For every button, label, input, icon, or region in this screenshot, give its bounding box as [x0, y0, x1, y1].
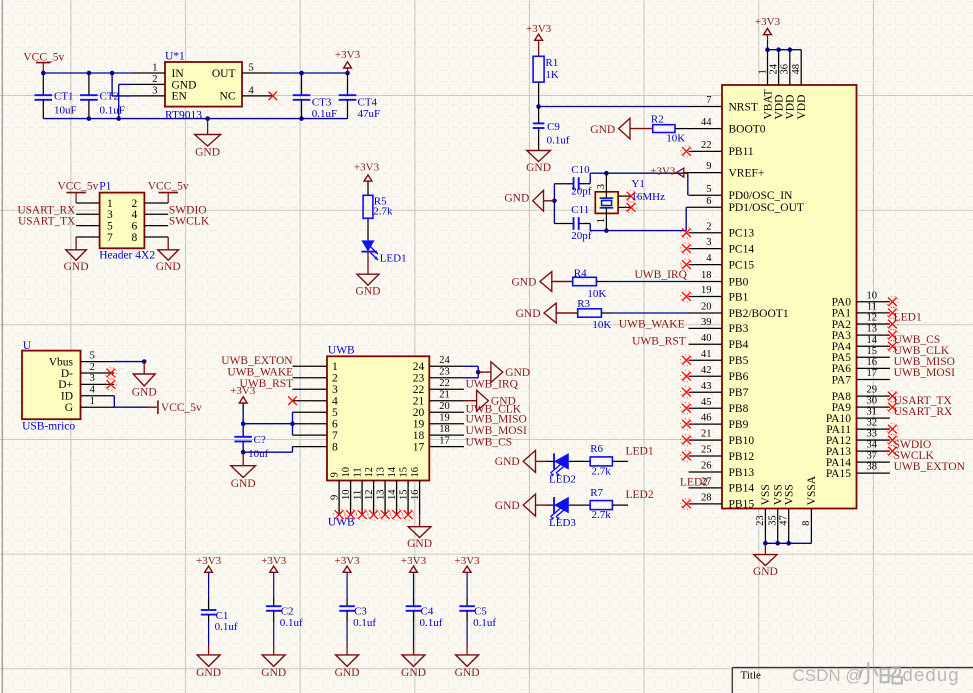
svg-text:43: 43: [701, 381, 712, 392]
svg-text:SWCLK: SWCLK: [169, 216, 210, 228]
svg-text:4: 4: [249, 85, 255, 96]
svg-text:CT4: CT4: [358, 97, 378, 109]
svg-text:22: 22: [439, 378, 450, 389]
svg-text:12: 12: [364, 490, 375, 501]
svg-text:LED1: LED1: [380, 253, 407, 265]
svg-text:45: 45: [701, 397, 712, 408]
svg-text:C9: C9: [547, 121, 560, 133]
svg-text:9: 9: [706, 161, 711, 172]
svg-text:R1: R1: [545, 57, 558, 69]
svg-text:8: 8: [132, 232, 138, 244]
svg-text:15: 15: [398, 467, 409, 478]
svg-text:12: 12: [364, 467, 375, 478]
svg-text:VCC_5v: VCC_5v: [57, 180, 98, 192]
svg-text:20pf: 20pf: [571, 186, 592, 198]
svg-text:4: 4: [332, 396, 338, 408]
svg-text:R3: R3: [577, 298, 590, 310]
svg-text:21: 21: [413, 396, 425, 408]
svg-text:UWB_EXTON: UWB_EXTON: [221, 355, 293, 367]
svg-text:1: 1: [332, 361, 338, 373]
svg-text:UWB_MOSI: UWB_MOSI: [466, 425, 528, 437]
svg-text:VDD: VDD: [785, 95, 797, 120]
svg-text:VSSA: VSSA: [806, 475, 818, 505]
svg-text:Y1: Y1: [631, 178, 644, 190]
svg-text:CSDN @: CSDN @: [793, 666, 863, 685]
svg-text:5: 5: [249, 63, 254, 74]
svg-text:LED2: LED2: [549, 473, 576, 485]
svg-text:17: 17: [413, 441, 425, 453]
svg-text:VDD: VDD: [796, 95, 808, 120]
svg-text:23: 23: [439, 367, 450, 378]
svg-text:GND: GND: [132, 387, 157, 399]
svg-text:0.1uF: 0.1uF: [312, 108, 337, 120]
svg-text:PC13: PC13: [729, 228, 755, 240]
svg-text:24: 24: [768, 63, 779, 74]
svg-text:0.1uf: 0.1uf: [473, 617, 496, 629]
svg-text:28: 28: [701, 493, 712, 504]
svg-text:2: 2: [90, 362, 95, 373]
svg-text:9: 9: [329, 495, 340, 500]
svg-text:+3V3: +3V3: [335, 49, 361, 61]
svg-text:34: 34: [867, 440, 878, 451]
svg-text:PB12: PB12: [729, 451, 755, 463]
svg-text:VCC_5v: VCC_5v: [23, 52, 64, 64]
svg-text:PB9: PB9: [729, 419, 749, 431]
svg-text:VSS: VSS: [784, 484, 796, 505]
svg-text:14: 14: [387, 489, 398, 500]
svg-text:+3V3: +3V3: [261, 555, 287, 567]
svg-text:RT9013: RT9013: [165, 110, 202, 122]
svg-text:36: 36: [780, 64, 791, 75]
svg-text:10K: 10K: [666, 133, 685, 145]
svg-text:15: 15: [398, 490, 409, 501]
svg-text:1: 1: [757, 69, 768, 74]
svg-text:3: 3: [596, 184, 607, 189]
svg-text:2.7k: 2.7k: [373, 206, 393, 218]
svg-text:VCC_5v: VCC_5v: [148, 180, 189, 192]
svg-text:3: 3: [90, 373, 95, 384]
svg-text:PB6: PB6: [729, 371, 749, 383]
svg-text:5: 5: [706, 184, 711, 195]
svg-text:47: 47: [779, 515, 790, 526]
svg-text:30: 30: [867, 396, 878, 407]
svg-text:12: 12: [867, 313, 878, 324]
svg-text:UWB_CS: UWB_CS: [466, 436, 513, 448]
svg-text:18: 18: [701, 270, 712, 281]
svg-text:0.1uF: 0.1uF: [100, 105, 125, 117]
svg-text:VCC_5v: VCC_5v: [161, 402, 202, 414]
svg-text:PB2/BOOT1: PB2/BOOT1: [729, 308, 789, 320]
svg-text:3: 3: [332, 384, 338, 396]
svg-text:USB-mrico: USB-mrico: [22, 421, 75, 433]
svg-text:PC14: PC14: [729, 243, 755, 255]
svg-text:C3: C3: [354, 605, 367, 617]
svg-text:UWB_IRQ: UWB_IRQ: [466, 378, 519, 390]
svg-text:C4: C4: [421, 605, 434, 617]
svg-text:Title: Title: [741, 670, 762, 682]
svg-text:UWB_WAKE: UWB_WAKE: [619, 319, 685, 331]
svg-text:0.1uf: 0.1uf: [280, 617, 303, 629]
svg-text:13: 13: [375, 490, 386, 501]
svg-text:D+: D+: [58, 379, 73, 391]
svg-text:42: 42: [701, 365, 712, 376]
svg-text:LED2: LED2: [680, 476, 708, 488]
svg-text:PA15: PA15: [826, 468, 851, 480]
svg-text:19: 19: [439, 412, 450, 423]
svg-text:1: 1: [90, 396, 95, 407]
svg-text:C2: C2: [281, 605, 294, 617]
svg-text:GND: GND: [526, 162, 551, 174]
svg-text:GND: GND: [401, 667, 426, 679]
svg-text:UWB_WAKE: UWB_WAKE: [227, 367, 293, 379]
svg-text:CT3: CT3: [312, 97, 332, 109]
svg-text:6: 6: [706, 196, 711, 207]
svg-text:Vbus: Vbus: [49, 356, 74, 368]
svg-text:0.1uf: 0.1uf: [353, 617, 376, 629]
svg-text:EN: EN: [172, 91, 188, 103]
svg-text:17: 17: [867, 368, 878, 379]
svg-text:19: 19: [413, 419, 425, 431]
svg-text:2: 2: [332, 373, 338, 385]
svg-text:G: G: [65, 402, 73, 414]
svg-text:32: 32: [867, 418, 878, 429]
svg-text:USART_RX: USART_RX: [17, 204, 75, 216]
svg-text:23: 23: [413, 373, 425, 385]
svg-text:PD0/OSC_IN: PD0/OSC_IN: [729, 190, 794, 202]
svg-text:10uF: 10uF: [54, 105, 77, 117]
svg-text:GND: GND: [511, 276, 536, 288]
svg-text:U: U: [23, 340, 32, 352]
svg-text:0.1uf: 0.1uf: [547, 135, 570, 147]
svg-text:+3V3: +3V3: [230, 385, 256, 397]
svg-text:PB4: PB4: [729, 339, 749, 351]
svg-text:47uF: 47uF: [358, 108, 381, 120]
svg-text:38: 38: [867, 462, 878, 473]
svg-text:18: 18: [439, 424, 450, 435]
svg-text:2.7k: 2.7k: [592, 465, 612, 477]
svg-text:SWDIO: SWDIO: [169, 204, 207, 216]
svg-text:11: 11: [352, 490, 363, 500]
svg-text:LED1: LED1: [894, 312, 922, 324]
svg-text:U*1: U*1: [165, 51, 185, 63]
svg-text:10: 10: [341, 490, 352, 501]
svg-text:UWB: UWB: [328, 344, 355, 356]
svg-text:17: 17: [439, 435, 450, 446]
svg-text:GND: GND: [335, 667, 360, 679]
svg-text:NC: NC: [220, 91, 236, 103]
svg-text:+3V3: +3V3: [650, 166, 676, 178]
svg-text:1: 1: [107, 198, 113, 210]
svg-text:10K: 10K: [587, 288, 606, 300]
svg-text:P1: P1: [99, 180, 111, 192]
svg-text:11: 11: [867, 302, 877, 313]
svg-text:13: 13: [867, 324, 878, 335]
svg-text:C?: C?: [254, 434, 266, 446]
svg-text:GND: GND: [590, 124, 615, 136]
svg-text:26: 26: [701, 461, 712, 472]
svg-text:C11: C11: [571, 204, 589, 216]
svg-text:GND: GND: [505, 367, 530, 379]
svg-text:2: 2: [152, 74, 157, 85]
svg-text:7: 7: [332, 430, 338, 442]
svg-text:1K: 1K: [545, 69, 559, 81]
svg-text:19: 19: [701, 285, 712, 296]
svg-text:GND: GND: [156, 261, 181, 273]
svg-text:4: 4: [706, 253, 712, 264]
svg-text:10K: 10K: [592, 319, 611, 331]
svg-text:GND: GND: [753, 566, 778, 578]
svg-text:18: 18: [413, 430, 425, 442]
svg-text:20: 20: [413, 407, 425, 419]
svg-text:16: 16: [410, 490, 421, 501]
svg-text:GND: GND: [495, 456, 520, 468]
svg-text:R7: R7: [590, 487, 603, 499]
svg-text:GND: GND: [261, 667, 286, 679]
svg-text:0.1uf: 0.1uf: [420, 617, 443, 629]
svg-text:UWB_IRQ: UWB_IRQ: [635, 269, 688, 281]
svg-text:GND: GND: [455, 667, 480, 679]
svg-text:ID: ID: [61, 391, 73, 403]
svg-text:3: 3: [107, 209, 113, 221]
svg-text:LED3: LED3: [549, 517, 576, 529]
svg-text:33: 33: [867, 429, 878, 440]
svg-text:2: 2: [706, 221, 711, 232]
svg-text:1: 1: [596, 218, 607, 223]
svg-text:BOOT0: BOOT0: [729, 123, 766, 135]
svg-text:+3V3: +3V3: [455, 555, 481, 567]
svg-text:31: 31: [867, 407, 878, 418]
svg-text:PC15: PC15: [729, 259, 755, 271]
svg-text:PB5: PB5: [729, 355, 749, 367]
svg-text:USART_RX: USART_RX: [894, 406, 953, 418]
svg-text:OUT: OUT: [212, 68, 236, 80]
svg-text:PB8: PB8: [729, 403, 749, 415]
svg-text:GND: GND: [407, 538, 432, 550]
svg-text:3: 3: [706, 237, 711, 248]
svg-text:PB11: PB11: [729, 146, 754, 158]
svg-text:2: 2: [132, 198, 138, 210]
svg-text:GND: GND: [356, 286, 381, 298]
svg-text:35: 35: [768, 515, 779, 526]
svg-text:0.1uf: 0.1uf: [215, 621, 238, 633]
svg-text:+3V3: +3V3: [354, 161, 380, 173]
svg-text:PD1/OSC_OUT: PD1/OSC_OUT: [729, 202, 804, 214]
svg-text:20: 20: [701, 302, 712, 313]
svg-text:GND: GND: [516, 308, 541, 320]
svg-text:2.7k: 2.7k: [592, 509, 612, 521]
svg-text:44: 44: [701, 117, 712, 128]
svg-text:40: 40: [701, 333, 712, 344]
svg-text:21: 21: [701, 429, 712, 440]
svg-text:GND: GND: [172, 80, 197, 92]
svg-text:UWB_RST: UWB_RST: [632, 335, 686, 347]
svg-text:5: 5: [332, 407, 338, 419]
svg-text:+3V3: +3V3: [196, 555, 222, 567]
svg-text:PA7: PA7: [832, 374, 852, 386]
svg-text:4: 4: [90, 385, 96, 396]
svg-text:15: 15: [867, 346, 878, 357]
svg-text:VDD: VDD: [773, 95, 785, 120]
svg-text:GND: GND: [64, 261, 89, 273]
svg-text:11: 11: [352, 467, 363, 477]
svg-text:UWB: UWB: [328, 517, 355, 529]
svg-text:dedug: dedug: [903, 664, 960, 685]
svg-text:CT1: CT1: [54, 91, 74, 103]
svg-text:8: 8: [332, 441, 338, 453]
svg-text:48: 48: [791, 64, 802, 75]
svg-text:16: 16: [867, 357, 878, 368]
svg-text:UWB_MISO: UWB_MISO: [466, 413, 527, 425]
svg-text:16MHz: 16MHz: [631, 191, 665, 203]
svg-text:PB7: PB7: [729, 387, 749, 399]
svg-text:C10: C10: [571, 164, 590, 176]
svg-text:IN: IN: [172, 68, 185, 80]
svg-text:4: 4: [132, 209, 138, 221]
svg-text:7: 7: [107, 232, 113, 244]
svg-text:6: 6: [332, 419, 338, 431]
svg-text:23: 23: [755, 515, 766, 526]
svg-text:10: 10: [867, 290, 878, 301]
svg-text:LED2: LED2: [626, 489, 654, 501]
svg-text:24: 24: [413, 361, 425, 373]
svg-text:R4: R4: [574, 268, 587, 280]
svg-text:46: 46: [701, 413, 712, 424]
svg-text:+3V3: +3V3: [755, 16, 781, 28]
svg-text:GND: GND: [195, 147, 220, 159]
svg-text:PB15: PB15: [729, 499, 755, 511]
svg-text:GND: GND: [196, 667, 221, 679]
svg-text:GND: GND: [504, 192, 529, 204]
svg-text:8: 8: [801, 521, 812, 526]
svg-text:R6: R6: [590, 443, 603, 455]
svg-text:14: 14: [867, 335, 878, 346]
svg-text:VREF+: VREF+: [729, 167, 765, 179]
svg-text:22: 22: [701, 140, 712, 151]
svg-text:39: 39: [701, 317, 712, 328]
svg-text:14: 14: [387, 466, 398, 477]
svg-text:PB14: PB14: [729, 483, 755, 495]
svg-text:PB10: PB10: [729, 435, 755, 447]
svg-text:GND: GND: [231, 478, 256, 490]
svg-text:10uf: 10uf: [248, 448, 269, 460]
svg-text:C1: C1: [216, 610, 229, 622]
svg-text:5: 5: [90, 350, 95, 361]
svg-text:PB0: PB0: [729, 276, 749, 288]
svg-text:7: 7: [706, 95, 711, 106]
svg-text:6: 6: [132, 220, 138, 232]
svg-text:20pf: 20pf: [571, 230, 592, 242]
svg-text:USART_TX: USART_TX: [18, 216, 75, 228]
svg-text:UWB_EXTON: UWB_EXTON: [894, 461, 966, 473]
svg-text:1: 1: [152, 63, 157, 74]
svg-text:29: 29: [867, 385, 878, 396]
svg-text:Header 4X2: Header 4X2: [99, 250, 155, 262]
svg-text:21: 21: [439, 389, 450, 400]
svg-text:16: 16: [410, 467, 421, 478]
svg-text:C5: C5: [474, 605, 487, 617]
svg-text:PB13: PB13: [729, 467, 755, 479]
svg-text:+3V3: +3V3: [335, 555, 361, 567]
svg-text:3: 3: [152, 85, 157, 96]
svg-text:9: 9: [329, 472, 340, 477]
svg-text:20: 20: [439, 401, 450, 412]
svg-text:PB3: PB3: [729, 323, 749, 335]
svg-text:GND: GND: [495, 500, 520, 512]
svg-text:PB1: PB1: [729, 291, 749, 303]
svg-text:R2: R2: [651, 113, 664, 125]
svg-text:+3V3: +3V3: [526, 23, 552, 35]
svg-text:13: 13: [375, 467, 386, 478]
svg-text:24: 24: [439, 355, 450, 366]
svg-text:NRST: NRST: [729, 101, 758, 113]
svg-text:25: 25: [701, 445, 712, 456]
svg-text:37: 37: [867, 451, 878, 462]
svg-text:22: 22: [413, 384, 425, 396]
svg-text:UWB_MOSI: UWB_MOSI: [894, 367, 956, 379]
svg-text:VSS: VSS: [760, 484, 772, 505]
svg-text:5: 5: [107, 220, 113, 232]
svg-text:10: 10: [341, 467, 352, 478]
svg-text:+3V3: +3V3: [401, 555, 427, 567]
svg-text:LED1: LED1: [626, 446, 654, 458]
svg-text:41: 41: [701, 349, 712, 360]
svg-text:D-: D-: [61, 368, 73, 380]
